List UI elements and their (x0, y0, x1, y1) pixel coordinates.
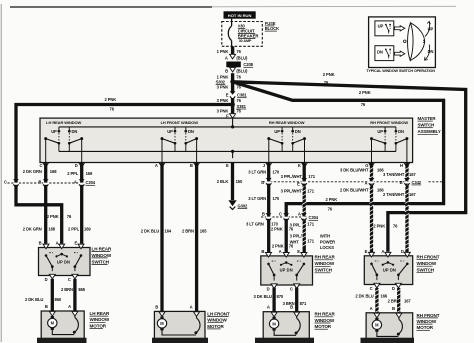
connector C304 (LH door) dashed row (8, 182, 85, 184)
LH REAR WINDOW SWITCH internal contacts (43, 244, 84, 279)
RH FRONT WINDOW MOTOR armature (372, 318, 402, 337)
svg-text:C: C (4, 179, 7, 184)
svg-text:170: 170 (273, 196, 280, 201)
svg-text:A: A (364, 180, 367, 185)
svg-text:UP: UP (378, 24, 384, 29)
ground G302 (228, 200, 236, 206)
LH REAR WINDOW MOTOR armature (48, 316, 79, 335)
svg-text:B: B (155, 304, 158, 309)
svg-text:2 PNK: 2 PNK (326, 197, 338, 202)
wire 2 PNK 76 branch S302 to RH front window switch (right loop) (233, 82, 466, 252)
svg-text:2 PNK: 2 PNK (105, 97, 117, 102)
svg-text:WINDOW: WINDOW (92, 253, 112, 258)
svg-text:3 LT GRN: 3 LT GRN (248, 196, 266, 201)
power bus inside master switch (59, 126, 396, 128)
svg-text:166: 166 (381, 293, 388, 298)
svg-text:WINDOW: WINDOW (207, 318, 227, 323)
wire 2 DK BLU 166 RH front switch C to motor A (375, 288, 378, 314)
wire 3 DK BLU 870 RH rear switch D to motor A (272, 288, 275, 312)
svg-text:C342: C342 (412, 180, 422, 185)
svg-text:2 DK GRN: 2 DK GRN (23, 169, 42, 174)
svg-text:2 BRN: 2 BRN (182, 229, 194, 234)
RH REAR WINDOW MOTOR pins (271, 312, 277, 317)
svg-text:30 AMP: 30 AMP (239, 39, 252, 43)
svg-text:B: B (39, 241, 42, 246)
svg-text:H: H (400, 163, 403, 168)
RH FRONT WINDOW SWITCH box (364, 256, 412, 285)
wire 3 LT GRN 170 master J to RH rear switch B (267, 163, 270, 252)
svg-text:2 PNK: 2 PNK (359, 90, 371, 95)
svg-text:RH FRONT WINDOW: RH FRONT WINDOW (370, 120, 408, 125)
svg-text:K: K (298, 163, 301, 168)
LH FRONT WINDOW MOTOR box (154, 311, 205, 340)
svg-text:WINDOW: WINDOW (90, 317, 110, 322)
wire 3 BRN 871 RH rear switch C to motor B (295, 288, 298, 312)
wire 2 DK BLU 860 LH rear switch D to motor B (51, 279, 54, 312)
svg-text:DN: DN (398, 129, 404, 134)
wire 3 PPL/WHT 171 master K to RH rear switch E (with power locks) (303, 163, 306, 252)
svg-text:B: B (262, 211, 265, 216)
svg-text:A: A (190, 304, 193, 309)
LH REAR WINDOW MOTOR box (41, 311, 84, 341)
svg-text:SWITCH: SWITCH (315, 268, 333, 273)
svg-text:C381: C381 (237, 93, 247, 98)
LH REAR WINDOW MOTOR pins (49, 311, 55, 316)
svg-text:A: A (381, 249, 384, 254)
svg-text:A: A (68, 304, 71, 309)
svg-text:C: C (68, 277, 71, 282)
inset arrow UP box to window (395, 26, 405, 31)
svg-text:D: D (401, 249, 404, 254)
svg-text:LH REAR: LH REAR (90, 311, 110, 316)
svg-text:E: E (74, 241, 77, 246)
svg-text:D: D (45, 277, 48, 282)
connector C381 pin E (230, 95, 235, 97)
svg-text:2 DK BLU: 2 DK BLU (141, 229, 159, 234)
svg-text:3 PPL/: 3 PPL/ (290, 233, 303, 238)
svg-text:B: B (400, 180, 403, 185)
svg-text:2 PNK: 2 PNK (373, 224, 385, 229)
svg-text:D: D (75, 163, 78, 168)
svg-text:E: E (365, 249, 368, 254)
svg-text:C: C (370, 286, 373, 291)
svg-text:LOCKS: LOCKS (320, 245, 334, 250)
svg-text:2 DK BLU: 2 DK BLU (355, 293, 373, 298)
svg-text:RH REAR: RH REAR (315, 255, 336, 260)
svg-text:2 BRN: 2 BRN (388, 299, 400, 304)
inset arrow DN box to window (395, 51, 405, 56)
master switch assembly box (40, 118, 413, 162)
svg-text:169: 169 (86, 171, 93, 176)
svg-text:B: B (261, 249, 264, 254)
svg-text:DN: DN (72, 129, 78, 134)
svg-text:(BLU): (BLU) (236, 55, 248, 60)
svg-text:E: E (297, 181, 300, 186)
svg-text:DN: DN (428, 49, 434, 54)
svg-text:2 PNK: 2 PNK (272, 243, 284, 248)
svg-text:E: E (297, 249, 300, 254)
svg-text:MOTOR: MOTOR (90, 323, 107, 328)
wire 2 DK BLU 164 master A to LH front motor B (160, 163, 163, 312)
svg-text:DN: DN (188, 129, 194, 134)
svg-text:2 PNK: 2 PNK (47, 214, 59, 219)
svg-text:M: M (375, 323, 379, 328)
svg-text:UP DN: UP DN (280, 268, 293, 273)
svg-text:3 TAN/WHT: 3 TAN/WHT (383, 172, 405, 177)
svg-text:UP: UP (51, 129, 57, 134)
svg-text:B: B (45, 304, 48, 309)
svg-text:UP: UP (274, 129, 280, 134)
pin F to power bus junction (232, 118, 234, 127)
svg-text:UP DN: UP DN (57, 259, 70, 264)
svg-text:C: C (290, 287, 293, 292)
power source label HOT IN RUN (224, 11, 256, 18)
ground bus inside master switch (59, 150, 396, 152)
svg-text:2 DK BLU: 2 DK BLU (25, 297, 43, 302)
svg-text:B: B (38, 179, 41, 184)
RH FRONT WINDOW MOTOR box (366, 313, 413, 339)
svg-text:865: 865 (78, 287, 85, 292)
svg-text:WITH: WITH (320, 233, 330, 238)
svg-text:A: A (74, 179, 77, 184)
ground bus to pin E junction (231, 150, 234, 153)
svg-text:3 PPL/WHT: 3 PPL/WHT (281, 174, 303, 179)
svg-text:3 LT GRN: 3 LT GRN (248, 170, 266, 175)
svg-text:3 PNK: 3 PNK (217, 98, 229, 103)
svg-text:RH REAR WINDOW: RH REAR WINDOW (269, 120, 305, 125)
svg-text:2 PPL: 2 PPL (67, 171, 79, 176)
svg-text:C: C (279, 211, 282, 216)
svg-text:E: E (226, 93, 229, 98)
svg-text:169: 169 (84, 227, 91, 232)
master switch section LH FRONT WINDOW (159, 120, 200, 167)
LH REAR WINDOW SWITCH box (39, 248, 91, 276)
svg-text:167: 167 (404, 299, 411, 304)
svg-text:2 TAN/WHT: 2 TAN/WHT (383, 192, 405, 197)
pin A of C208 (230, 54, 236, 59)
wire 1 PNK 76 fuse to C208 (231, 46, 234, 54)
svg-text:POWER: POWER (320, 239, 335, 244)
svg-text:2 DK GRN: 2 DK GRN (23, 227, 42, 232)
svg-text:WINDOW: WINDOW (417, 261, 437, 266)
svg-text:A: A (279, 249, 282, 254)
master switch section RH FRONT WINDOW (369, 120, 410, 167)
master switch section RH REAR WINDOW (266, 120, 308, 167)
svg-text:2 BLK: 2 BLK (217, 179, 229, 184)
svg-text:E: E (226, 163, 229, 168)
connector C304 (RH rear door) dashed row (261, 216, 307, 218)
svg-text:A: A (225, 55, 228, 60)
svg-text:WINDOW: WINDOW (315, 318, 335, 323)
svg-text:MOTOR: MOTOR (417, 325, 434, 330)
svg-text:2 PPL: 2 PPL (68, 227, 80, 232)
svg-text:UP: UP (377, 129, 383, 134)
svg-text:HOT IN RUN: HOT IN RUN (228, 13, 252, 18)
svg-text:SWITCH: SWITCH (92, 259, 110, 264)
svg-text:165: 165 (200, 229, 207, 234)
svg-text:B: B (392, 306, 395, 311)
wire 2 PPL 169 master D to LH rear switch E (80, 163, 83, 244)
svg-text:870: 870 (277, 294, 284, 299)
svg-text:MASTER: MASTER (418, 116, 437, 121)
svg-text:M: M (272, 321, 276, 326)
RH REAR WINDOW MOTOR armature (269, 317, 300, 336)
svg-text:M: M (51, 321, 55, 326)
svg-text:D: D (267, 287, 270, 292)
inset DN switch box (375, 46, 394, 61)
splice S302 (230, 80, 235, 85)
svg-text:A: A (370, 306, 373, 311)
pin F master switch (230, 114, 236, 119)
svg-text:171: 171 (307, 239, 314, 244)
wire 2 BLK 150 master E to ground (231, 163, 234, 200)
svg-text:171: 171 (307, 222, 314, 227)
LH FRONT WINDOW MOTOR armature (157, 316, 200, 335)
svg-text:DN: DN (377, 49, 383, 54)
wire 1 PNK 76 C208 to S302 (231, 73, 234, 82)
svg-text:A: A (56, 241, 59, 246)
svg-text:170: 170 (273, 170, 280, 175)
RH REAR WINDOW SWITCH internal contacts (266, 253, 307, 289)
svg-text:D: D (261, 180, 264, 185)
svg-text:RH FRONT: RH FRONT (417, 255, 440, 260)
master switch section LH REAR WINDOW (43, 120, 85, 167)
svg-text:167: 167 (409, 172, 416, 177)
svg-text:2 DK BLU/WHT: 2 DK BLU/WHT (340, 187, 369, 192)
svg-text:1 PNK: 1 PNK (217, 49, 229, 54)
svg-text:860: 860 (55, 297, 62, 302)
svg-text:2 PNK: 2 PNK (271, 227, 283, 232)
svg-text:150: 150 (236, 179, 243, 184)
connector C342 (RH doors) dashed row (263, 181, 410, 183)
inset UP direction arrow (425, 22, 430, 37)
svg-text:RH FRONT: RH FRONT (417, 313, 440, 318)
circuit breaker #30 30 AMP (231, 19, 233, 26)
svg-text:B: B (190, 163, 193, 168)
svg-text:2 BRN: 2 BRN (61, 287, 73, 292)
svg-text:C304: C304 (86, 180, 96, 185)
svg-text:SWITCH: SWITCH (418, 123, 435, 128)
svg-text:DN: DN (295, 129, 301, 134)
svg-text:168: 168 (48, 227, 55, 232)
svg-text:3 LT GRN: 3 LT GRN (246, 222, 264, 227)
svg-text:M: M (160, 321, 164, 326)
svg-text:D: D (392, 286, 395, 291)
splice S381 (230, 102, 235, 107)
RH REAR WINDOW SWITCH box (261, 256, 313, 285)
RH FRONT WINDOW SWITCH internal contacts (369, 252, 411, 288)
svg-text:168: 168 (50, 169, 57, 174)
RH FRONT WINDOW MOTOR pins (374, 313, 380, 318)
wire 2 DK GRN 168 master C to LH rear switch B (44, 163, 47, 244)
svg-text:C304: C304 (309, 215, 319, 220)
svg-text:3 PPL/WHT: 3 PPL/WHT (281, 189, 303, 194)
svg-text:3 DK BLU/WHT: 3 DK BLU/WHT (340, 167, 369, 172)
wire 2 PNK 76 feed S381 to LH rear window switch (left loop) (16, 105, 233, 244)
svg-text:B: B (225, 69, 228, 74)
svg-text:164: 164 (165, 229, 172, 234)
svg-text:MOTOR: MOTOR (315, 324, 332, 329)
svg-text:167: 167 (409, 192, 416, 197)
svg-text:C208: C208 (243, 62, 253, 67)
wire 3 PNK 76 C381 to S381 (231, 98, 234, 105)
svg-text:MOTOR: MOTOR (207, 324, 224, 329)
svg-text:ASSEMBLY: ASSEMBLY (418, 129, 441, 134)
svg-text:WINDOW: WINDOW (315, 261, 335, 266)
svg-text:LH REAR WINDOW: LH REAR WINDOW (46, 120, 81, 125)
svg-text:B: B (290, 305, 293, 310)
svg-text:3 DK BLU: 3 DK BLU (254, 294, 272, 299)
wire 2 BRN 167 RH front switch D to motor B (397, 288, 400, 314)
svg-text:WINDOW: WINDOW (417, 319, 437, 324)
inset UP switch box (375, 21, 394, 36)
svg-text:171: 171 (308, 174, 315, 179)
svg-text:LH REAR: LH REAR (92, 246, 112, 251)
wire 2 PNK 76 branch S302 to RH rear window switch (inner loop) (233, 82, 444, 252)
svg-text:UP DN: UP DN (383, 268, 396, 273)
svg-text:UP: UP (428, 27, 434, 32)
wire 3 TAN/WHT 167 master H to RH front switch D (405, 163, 408, 252)
inset box TYPICAL WINDOW SWITCH OPERATION (369, 17, 436, 68)
pin B of C208 (231, 67, 234, 69)
svg-text:BREAKER: BREAKER (238, 33, 260, 38)
RH REAR WINDOW MOTOR box (263, 312, 309, 341)
svg-text:TYPICAL WINDOW SWITCH OPERATIO: TYPICAL WINDOW SWITCH OPERATION (366, 69, 435, 73)
svg-text:C: C (40, 163, 43, 168)
svg-text:A: A (155, 163, 158, 168)
connector C208 (226, 62, 241, 68)
wire 3 PNK 76 S302 to C381 (231, 82, 234, 92)
svg-text:A: A (267, 305, 270, 310)
LH FRONT WINDOW MOTOR pins (159, 312, 165, 317)
inset DN direction arrow (425, 45, 430, 60)
svg-text:RH REAR: RH REAR (315, 312, 336, 317)
inset window glass shape (408, 23, 414, 61)
wire 2 BRN 865 LH rear switch C to motor A (73, 279, 76, 312)
svg-text:2 PNK: 2 PNK (323, 72, 335, 77)
wire 3 PNK 76 S381 to master switch pin F (231, 105, 234, 114)
svg-text:(BLU): (BLU) (236, 69, 248, 74)
svg-text:871: 871 (300, 301, 307, 306)
svg-text:3 PNK: 3 PNK (217, 85, 229, 90)
wire 3 DK BLU/WHT 166 master G to RH front switch E (370, 163, 373, 252)
svg-text:A: A (298, 211, 301, 216)
svg-text:BLOCK: BLOCK (265, 26, 279, 31)
svg-text:LH FRONT: LH FRONT (207, 311, 230, 316)
svg-text:UP: UP (167, 129, 173, 134)
svg-text:LH FRONT WINDOW: LH FRONT WINDOW (161, 120, 199, 125)
svg-text:SWITCH: SWITCH (417, 268, 435, 273)
fuse block (dashed) (222, 22, 262, 47)
svg-text:171: 171 (307, 189, 314, 194)
svg-text:G302: G302 (238, 203, 249, 208)
wire 2 BRN 165 master B to LH front motor A (195, 163, 198, 312)
